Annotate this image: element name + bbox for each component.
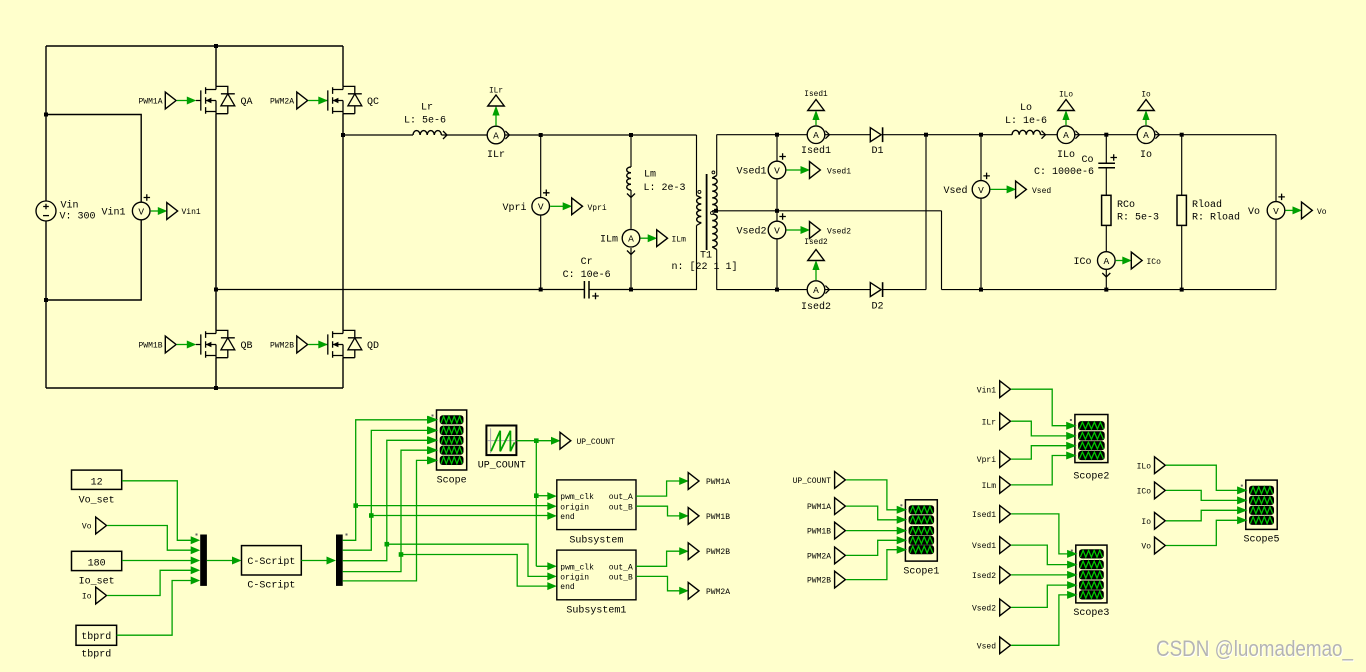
svg-text:V: V — [978, 185, 984, 196]
svg-text:Vsed2: Vsed2 — [972, 605, 996, 614]
svg-text:ILr: ILr — [489, 88, 503, 96]
svg-text:L: 1e-6: L: 1e-6 — [1005, 116, 1047, 127]
svg-text:Vo_set: Vo_set — [79, 496, 115, 507]
svg-text:C-Script: C-Script — [247, 556, 295, 568]
svg-text:ILr: ILr — [982, 418, 997, 427]
svg-text:Cr: Cr — [581, 257, 593, 268]
svg-text:Vo: Vo — [1141, 543, 1151, 552]
svg-text:CSDN @luomademao_: CSDN @luomademao_ — [1156, 636, 1353, 661]
svg-text:UP_COUNT: UP_COUNT — [577, 438, 616, 447]
svg-text:Co: Co — [1081, 155, 1093, 166]
svg-text:ICo: ICo — [1137, 488, 1152, 497]
svg-text:V: V — [1273, 206, 1279, 217]
svg-text:UP_COUNT: UP_COUNT — [793, 477, 832, 486]
svg-text:ILo: ILo — [1057, 150, 1075, 161]
svg-text:180: 180 — [88, 559, 106, 570]
svg-text:PWM1B: PWM1B — [706, 513, 730, 522]
svg-text:Rload: Rload — [1192, 199, 1222, 211]
svg-text:L: 2e-3: L: 2e-3 — [644, 183, 686, 194]
svg-text:Scope3: Scope3 — [1073, 608, 1109, 619]
svg-text:PWM1A: PWM1A — [138, 98, 162, 107]
svg-text:Vin1: Vin1 — [182, 208, 201, 217]
svg-text:R: 5e-3: R: 5e-3 — [1117, 213, 1159, 224]
svg-text:end: end — [560, 513, 575, 522]
svg-text:out_B: out_B — [609, 503, 633, 512]
svg-text:Subsystem: Subsystem — [569, 534, 623, 546]
svg-text:Io: Io — [82, 593, 92, 602]
svg-text:Vpri: Vpri — [588, 204, 607, 213]
svg-text:out_A: out_A — [609, 493, 633, 502]
svg-text:Io: Io — [1140, 150, 1152, 161]
svg-text:Vpri: Vpri — [977, 456, 996, 465]
svg-text:Vsed2: Vsed2 — [827, 227, 851, 236]
svg-text:PWM2A: PWM2A — [270, 98, 294, 107]
svg-text:Scope1: Scope1 — [903, 567, 939, 578]
svg-text:Scope2: Scope2 — [1073, 472, 1109, 483]
svg-text:Ised2: Ised2 — [804, 239, 828, 247]
svg-text:12: 12 — [91, 478, 103, 489]
svg-text:origin: origin — [560, 574, 589, 583]
svg-text:PWM2A: PWM2A — [706, 588, 730, 597]
svg-text:Vsed1: Vsed1 — [972, 542, 996, 551]
svg-text:QA: QA — [241, 97, 253, 108]
svg-text:ILm: ILm — [982, 482, 997, 491]
svg-text:Vin1: Vin1 — [977, 386, 996, 395]
svg-text:Vin1: Vin1 — [101, 207, 125, 219]
svg-text:Vsed1: Vsed1 — [736, 166, 766, 178]
svg-text:C: 1000e-6: C: 1000e-6 — [1034, 167, 1094, 178]
svg-text:Io: Io — [1141, 518, 1151, 527]
svg-text:PWM2B: PWM2B — [270, 342, 294, 351]
svg-text:A: A — [628, 234, 634, 245]
svg-text:Ised1: Ised1 — [972, 511, 996, 520]
svg-text:C-Script: C-Script — [247, 580, 295, 592]
svg-text:Vpri: Vpri — [502, 202, 526, 214]
svg-text:PWM2B: PWM2B — [807, 577, 831, 586]
svg-text:UP_COUNT: UP_COUNT — [478, 461, 526, 472]
svg-text:Lm: Lm — [644, 170, 656, 181]
svg-text:end: end — [560, 583, 575, 592]
svg-text:Vo: Vo — [82, 523, 92, 532]
svg-text:pwm_clk: pwm_clk — [560, 493, 594, 502]
svg-text:QC: QC — [367, 97, 379, 108]
svg-text:D1: D1 — [871, 146, 883, 157]
svg-text:Ised1: Ised1 — [804, 91, 828, 99]
svg-text:Ised2: Ised2 — [972, 572, 996, 581]
svg-text:Ised1: Ised1 — [801, 145, 831, 157]
svg-text:Vsed2: Vsed2 — [736, 226, 766, 238]
svg-text:origin: origin — [560, 503, 589, 512]
svg-text:Vsed: Vsed — [977, 642, 996, 651]
svg-text:ILm: ILm — [600, 235, 618, 246]
svg-text:ILo: ILo — [1059, 92, 1073, 100]
svg-text:Lo: Lo — [1020, 103, 1032, 114]
svg-text:Vsed: Vsed — [1032, 187, 1051, 196]
svg-text:n: [22 1 1]: n: [22 1 1] — [671, 261, 737, 273]
svg-text:Vo: Vo — [1317, 208, 1327, 217]
svg-text:A: A — [493, 130, 499, 141]
svg-text:ICo: ICo — [1147, 258, 1162, 267]
svg-text:Scope: Scope — [437, 476, 467, 487]
svg-text:C: 10e-6: C: 10e-6 — [563, 270, 611, 281]
svg-text:PWM1A: PWM1A — [807, 503, 831, 512]
svg-text:Vo: Vo — [1248, 207, 1260, 218]
svg-text:ILr: ILr — [487, 150, 505, 161]
svg-text:PWM1B: PWM1B — [138, 342, 162, 351]
svg-text:QD: QD — [367, 341, 379, 352]
svg-text:Vsed1: Vsed1 — [827, 167, 851, 176]
svg-text:V: V — [138, 206, 144, 217]
svg-text:T1: T1 — [700, 251, 712, 262]
svg-text:tbprd: tbprd — [81, 648, 111, 660]
svg-text:out_B: out_B — [609, 574, 633, 583]
svg-text:ILm: ILm — [672, 236, 687, 245]
svg-text:Scope5: Scope5 — [1243, 535, 1279, 546]
svg-text:out_A: out_A — [609, 563, 633, 572]
svg-text:A: A — [1103, 256, 1109, 267]
svg-text:tbprd: tbprd — [81, 631, 111, 643]
svg-text:R: Rload: R: Rload — [1192, 212, 1240, 224]
svg-text:V: 300: V: 300 — [60, 212, 96, 223]
svg-text:A: A — [1143, 130, 1149, 141]
svg-text:Vin: Vin — [61, 199, 79, 211]
svg-text:V: V — [774, 225, 780, 236]
svg-text:A: A — [813, 285, 819, 296]
svg-text:L: 5e-6: L: 5e-6 — [404, 116, 446, 127]
svg-text:Io_set: Io_set — [79, 577, 115, 588]
svg-text:A: A — [813, 130, 819, 141]
svg-text:D2: D2 — [871, 302, 883, 313]
svg-text:QB: QB — [241, 341, 253, 352]
svg-text:ICo: ICo — [1073, 257, 1091, 268]
svg-text:PWM1B: PWM1B — [807, 528, 831, 537]
svg-text:Lr: Lr — [421, 103, 433, 114]
svg-text:Ised2: Ised2 — [801, 301, 831, 313]
svg-text:ILo: ILo — [1137, 462, 1152, 471]
svg-text:Io: Io — [1141, 92, 1151, 100]
svg-text:V: V — [774, 165, 780, 176]
svg-text:Subsystem1: Subsystem1 — [566, 605, 626, 617]
svg-text:RCo: RCo — [1117, 200, 1135, 211]
svg-text:V: V — [538, 202, 544, 213]
svg-text:PWM2B: PWM2B — [706, 548, 730, 557]
svg-text:PWM1A: PWM1A — [706, 478, 730, 487]
svg-text:A: A — [1063, 130, 1069, 141]
svg-text:PWM2A: PWM2A — [807, 553, 831, 562]
svg-text:Vsed: Vsed — [943, 185, 967, 197]
svg-text:pwm_clk: pwm_clk — [560, 563, 594, 572]
